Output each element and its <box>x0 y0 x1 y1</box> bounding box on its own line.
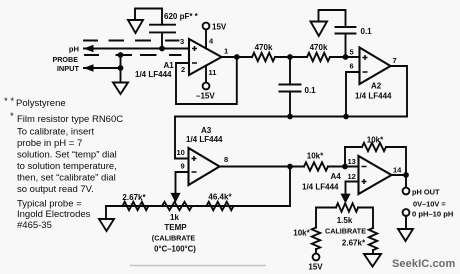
wiper arrow (1k pot) <box>172 194 179 201</box>
svg-text:14: 14 <box>393 166 402 175</box>
svg-text:to solution temperature,: to solution temperature, <box>17 161 117 172</box>
svg-text:0°C–100°C): 0°C–100°C) <box>154 245 196 254</box>
potentiometer 1.5k CALIBRATE <box>336 203 358 211</box>
wire / terminal 15V (bottom) <box>315 249 317 254</box>
svg-text:Film resistor type RN60C: Film resistor type RN60C <box>17 114 123 125</box>
shield triangle (top-left) <box>128 20 143 33</box>
wire 620pF top bracket <box>135 9 162 25</box>
svg-text:10: 10 <box>177 148 185 157</box>
wire pin9 to pot wiper <box>176 172 189 194</box>
op-amp A2 <box>360 48 391 85</box>
wire A2 output <box>391 66 408 117</box>
svg-text:A2: A2 <box>371 82 382 91</box>
svg-text:470k: 470k <box>310 43 328 52</box>
wire pot left to 10k <box>316 208 336 228</box>
arrow pH <box>84 45 94 53</box>
svg-text:7: 7 <box>393 56 397 65</box>
svg-text:Polystyrene: Polystyrene <box>16 98 66 109</box>
svg-text:1k: 1k <box>170 213 179 222</box>
wire pH line <box>84 48 189 50</box>
svg-text:CALIBRATE: CALIBRATE <box>325 227 366 236</box>
resistor 2.67k* (vertical) <box>369 228 377 250</box>
op-amp A1 <box>189 39 222 75</box>
svg-text:TEMP: TEMP <box>164 223 187 232</box>
svg-text:1/4 LF444: 1/4 LF444 <box>355 92 392 101</box>
resistor 470k #1 <box>252 53 275 61</box>
svg-text:pH OUT: pH OUT <box>412 188 440 197</box>
svg-text:13: 13 <box>348 157 356 166</box>
svg-text:so output read 7V.: so output read 7V. <box>17 184 94 195</box>
svg-text:2.67k*: 2.67k* <box>122 193 146 202</box>
wire A4 feedback right <box>386 147 406 175</box>
svg-text:Ingold Electrodes: Ingold Electrodes <box>17 209 91 220</box>
node A3 out <box>287 164 293 170</box>
svg-text:1/4 LF444: 1/4 LF444 <box>135 70 172 79</box>
svg-text:0 pH–10 pH: 0 pH–10 pH <box>412 210 453 219</box>
terminal pH OUT <box>403 188 410 195</box>
svg-text:(CALIBRATE: (CALIBRATE <box>152 234 196 243</box>
svg-text:11: 11 <box>209 68 217 77</box>
wire shield vertical <box>120 55 122 83</box>
capacitor 0.1 (mid) <box>280 57 301 117</box>
svg-text:–15V: –15V <box>196 92 215 101</box>
pin 4 wire / 15V terminal <box>205 29 207 48</box>
wire to A2 + <box>330 56 360 58</box>
svg-text:0.1: 0.1 <box>361 27 373 36</box>
svg-text:1: 1 <box>224 47 228 56</box>
svg-text:#465-35: #465-35 <box>17 220 52 231</box>
potentiometer 1k TEMP <box>162 202 192 210</box>
svg-text:0V–10V =: 0V–10V = <box>413 200 446 209</box>
wire to ground <box>372 250 374 254</box>
svg-text:15V: 15V <box>212 23 227 32</box>
svg-text:8: 8 <box>224 155 228 164</box>
wire to ground <box>405 216 407 229</box>
resistor 470k #2 <box>307 53 330 61</box>
op-amp +/- signs <box>192 46 368 184</box>
pin 11 wire / -15V terminal <box>205 66 207 83</box>
wire A1 output to A2 <box>222 56 253 58</box>
svg-text:SeekIC.com: SeekIC.com <box>392 258 455 270</box>
svg-text:probe in pH = 7: probe in pH = 7 <box>17 138 82 149</box>
wire bottom bus y=116.5 <box>175 116 407 118</box>
node probe input <box>118 65 124 71</box>
svg-text:3: 3 <box>180 37 184 46</box>
svg-text:A1: A1 <box>164 61 175 70</box>
svg-text:15V: 15V <box>308 263 323 272</box>
svg-text:10k*: 10k* <box>367 136 384 145</box>
svg-text:To calibrate, insert: To calibrate, insert <box>17 127 94 138</box>
svg-text:9: 9 <box>181 162 185 171</box>
svg-text:2: 2 <box>181 65 185 74</box>
svg-text:620 pF* *: 620 pF* * <box>164 12 199 21</box>
footnote text <box>4 96 123 231</box>
wire probe input line <box>84 67 121 69</box>
wire 46.4k vertical <box>289 167 291 207</box>
shield dashes bottom row <box>85 54 181 56</box>
svg-text:solution. Set “temp” dial: solution. Set “temp” dial <box>17 150 117 161</box>
svg-text:10k*: 10k* <box>307 152 324 161</box>
svg-text:A3: A3 <box>201 126 212 135</box>
wire bottom-left bus <box>106 206 290 219</box>
svg-text:5: 5 <box>350 48 354 57</box>
node 620pF/pH <box>159 46 165 52</box>
wire A4 feedback left <box>345 147 362 167</box>
resistor 10k* (A3 out to A4) <box>304 162 328 170</box>
op-amp A3 <box>189 148 220 185</box>
svg-text:2.67k*: 2.67k* <box>342 239 366 248</box>
wire A1 feedback <box>176 57 237 104</box>
wire A3 output <box>220 166 305 168</box>
node 470k mid <box>287 54 293 60</box>
svg-text:1.5k: 1.5k <box>337 216 353 225</box>
resistor 2.67k* (left) <box>123 202 149 210</box>
scan artifact line <box>130 265 266 267</box>
capacitor 620 pF <box>150 25 175 49</box>
svg-text:6: 6 <box>350 62 354 71</box>
resistor 10k* (A4 feedback) <box>362 143 386 151</box>
shield triangle (top-mid) <box>311 22 328 37</box>
wiper arrow (1.5k pot) <box>342 195 349 202</box>
svg-text:1/4 LF444: 1/4 LF444 <box>302 183 339 192</box>
svg-text:then, set “calibrate” dial: then, set “calibrate” dial <box>17 173 116 184</box>
svg-text:4: 4 <box>209 37 214 46</box>
ground (2.67k) <box>364 254 381 267</box>
wire A2 feedback <box>346 72 360 117</box>
wire A2 shield bracket <box>319 10 346 27</box>
svg-text:10k*: 10k* <box>293 229 310 238</box>
op-amp A4 <box>359 156 392 194</box>
wire <box>275 56 307 58</box>
wire pot right to 2.67k <box>358 208 373 229</box>
svg-text:PROBE: PROBE <box>52 55 78 64</box>
svg-text:12: 12 <box>348 172 356 181</box>
ground (temp bus) <box>99 219 114 231</box>
node shield top <box>118 52 124 58</box>
svg-text:0.1: 0.1 <box>305 86 317 95</box>
node cap bottom <box>287 114 293 120</box>
svg-text:A4: A4 <box>331 172 342 181</box>
ground (probe shield) <box>113 83 128 95</box>
resistor 46.4k* <box>207 202 234 210</box>
resistor 10k* (vertical) <box>312 228 320 250</box>
node A4 out <box>403 172 409 178</box>
terminal pH OUT ref <box>403 209 410 216</box>
svg-text:1/4 LF444: 1/4 LF444 <box>186 135 223 144</box>
svg-text:*: * <box>10 111 14 122</box>
svg-text:pH: pH <box>69 45 79 54</box>
arrow probe input <box>84 64 94 72</box>
wire pin12 to calibrate wiper <box>346 182 359 195</box>
shield dashes top row <box>84 40 179 42</box>
svg-text:46.4k*: 46.4k* <box>208 193 232 202</box>
svg-text:Typical probe =: Typical probe = <box>17 199 82 210</box>
ground (pH OUT) <box>398 229 413 241</box>
wire A4 output <box>392 175 407 188</box>
wire pin10 <box>175 117 189 159</box>
capacitor 0.1 (top) <box>336 27 356 57</box>
node A4 in <box>342 164 348 170</box>
svg-text:470k: 470k <box>255 43 273 52</box>
node A2 fb <box>343 114 349 120</box>
node A2 + <box>343 54 349 60</box>
svg-text:INPUT: INPUT <box>57 64 80 73</box>
wire to pin13 <box>328 166 359 168</box>
svg-text:* *: * * <box>4 96 14 107</box>
node A1 out <box>234 54 240 60</box>
